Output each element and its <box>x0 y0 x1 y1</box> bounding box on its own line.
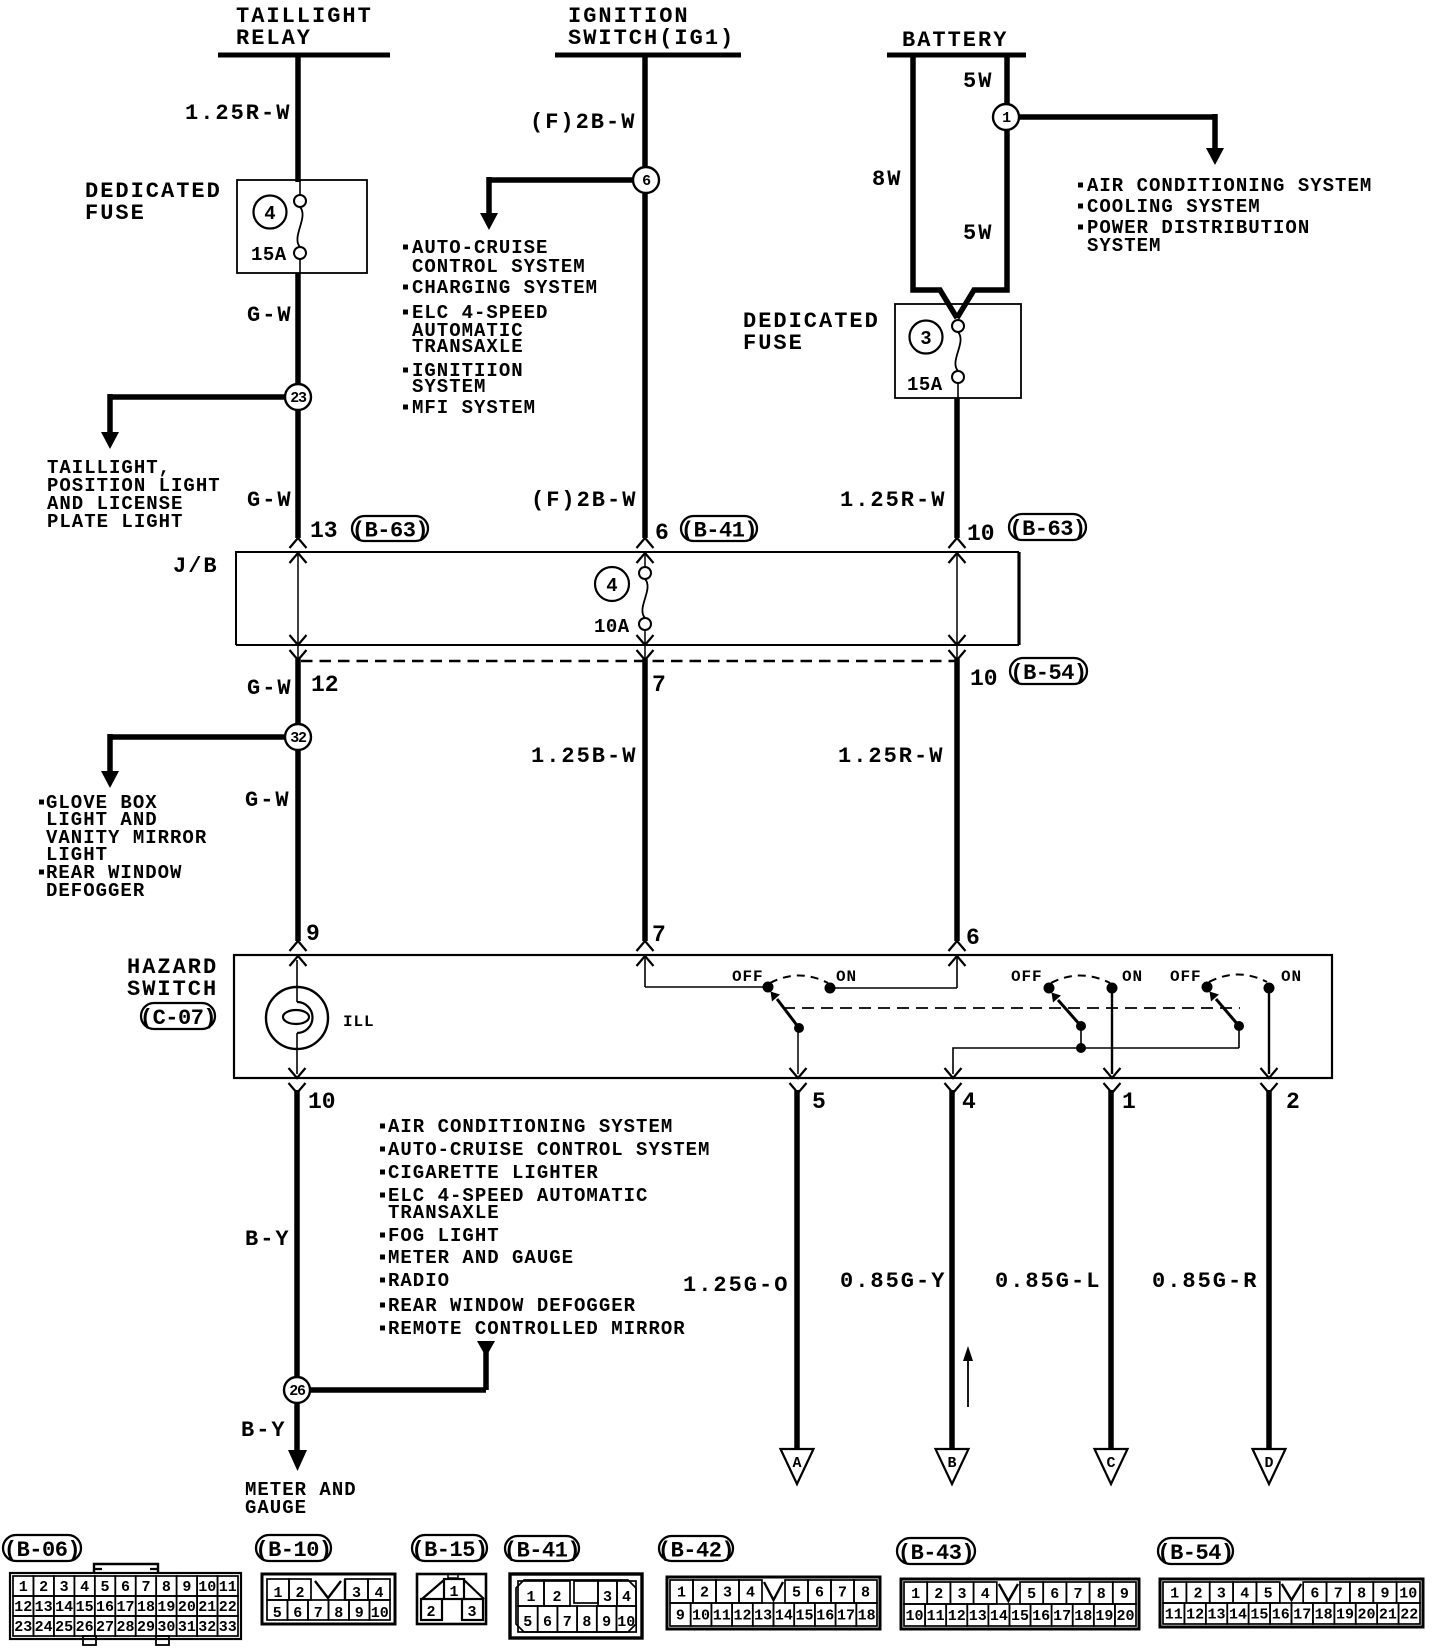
wire1 inside J/B <box>297 554 299 659</box>
branch wire at junction 23 to taillight group <box>101 394 298 449</box>
label 15A fuse 3 <box>907 374 943 396</box>
label G-W pin12 <box>247 676 293 701</box>
wire battery 5W branch <box>957 55 1007 318</box>
svg-text:10: 10 <box>371 1605 389 1622</box>
junction 23 <box>285 384 311 410</box>
hazard switch 2 ON wire to pin 1 <box>1111 988 1113 1074</box>
hazard switch 1 input line <box>645 957 768 987</box>
svg-text:1: 1 <box>1170 1586 1179 1603</box>
hazard switch 3 OFF label <box>1170 968 1202 986</box>
svg-text:8: 8 <box>1097 1586 1106 1603</box>
svg-text:J/B: J/B <box>173 554 219 579</box>
svg-text:4: 4 <box>606 575 617 597</box>
svg-text:8: 8 <box>334 1605 343 1622</box>
svg-text:15: 15 <box>1250 1607 1268 1624</box>
junction 26 <box>284 1377 310 1403</box>
hazard switch 2 contact arc <box>1051 976 1110 984</box>
svg-text:CIGARETTE LIGHTER: CIGARETTE LIGHTER <box>388 1162 599 1184</box>
svg-text:(B-06): (B-06) <box>4 1538 80 1563</box>
svg-text:DEFOGGER: DEFOGGER <box>46 880 145 902</box>
wire 1.25G-O pin5 to A <box>794 1090 800 1449</box>
svg-text:OFF: OFF <box>1170 968 1202 986</box>
label G-W upper <box>247 303 293 328</box>
svg-text:3: 3 <box>467 1604 476 1621</box>
label ILL <box>343 1013 375 1031</box>
connector arrows wire2 into J/B <box>637 538 654 563</box>
wire B-Y to meter and gauge <box>288 1403 307 1471</box>
component hazard switch label <box>127 955 218 1002</box>
node B destination triangle <box>936 1449 969 1484</box>
hazard switch 1 lever <box>771 992 804 1033</box>
connector B-41 pinout <box>504 1536 642 1638</box>
svg-text:G-W: G-W <box>247 488 293 513</box>
svg-text:(B-41): (B-41) <box>681 519 757 544</box>
svg-text:FOG LIGHT: FOG LIGHT <box>388 1225 500 1247</box>
svg-text:18: 18 <box>137 1599 155 1616</box>
pin 10 hazard bottom <box>308 1089 336 1115</box>
svg-text:1: 1 <box>19 1579 28 1596</box>
svg-text:ON: ON <box>1281 968 1302 986</box>
label 1.25G-O <box>683 1273 789 1298</box>
connector arrows pin5 hazard bottom <box>790 1068 807 1093</box>
hazard switch 3 lever to common <box>1238 1026 1240 1048</box>
label 5W upper <box>963 69 993 94</box>
mechanical link dashed line <box>783 1007 1240 1009</box>
wire G-W J/B to junction 32 <box>295 659 301 941</box>
svg-text:16: 16 <box>96 1599 114 1616</box>
label 0.85G-L <box>995 1269 1101 1294</box>
svg-text:23: 23 <box>14 1619 32 1636</box>
annotation meter and gauge <box>245 1479 357 1519</box>
svg-text:(B-54): (B-54) <box>1157 1541 1233 1566</box>
wire G-W fuse4 to junction 23 <box>295 273 301 538</box>
wire 0.85G-L pin1 to C <box>1108 1090 1114 1449</box>
pin 7 J/B bottom <box>652 672 666 698</box>
hazard switch 1 contact arc <box>770 976 828 984</box>
svg-text:(B-41): (B-41) <box>504 1539 580 1564</box>
wire3 inside J/B <box>956 554 958 659</box>
svg-text:10: 10 <box>970 666 998 692</box>
label 1.25R-W above J/B <box>840 488 946 513</box>
svg-text:9: 9 <box>182 1579 191 1596</box>
svg-text:OFF: OFF <box>1011 968 1043 986</box>
svg-text:4: 4 <box>962 1089 976 1115</box>
svg-text:33: 33 <box>219 1619 237 1636</box>
svg-text:18: 18 <box>1074 1608 1092 1625</box>
common wire to pin 4 <box>953 1048 1239 1074</box>
svg-text:1.25G-O: 1.25G-O <box>683 1273 789 1298</box>
svg-text:7: 7 <box>838 1585 847 1602</box>
svg-text:GAUGE: GAUGE <box>245 1497 307 1519</box>
svg-text:(C-07): (C-07) <box>140 1006 216 1031</box>
label (F)2B-W upper <box>530 110 636 135</box>
svg-text:19: 19 <box>1095 1608 1113 1625</box>
svg-text:5W: 5W <box>963 69 993 94</box>
svg-text:(B-54): (B-54) <box>1010 661 1086 686</box>
svg-text:1.25R-W: 1.25R-W <box>840 488 946 513</box>
svg-text:23: 23 <box>290 390 307 407</box>
svg-text:1.25R-W: 1.25R-W <box>838 744 944 769</box>
wire 1.25R-W fuse3 to J/B <box>954 398 960 538</box>
connector B-63 pin13 <box>352 516 428 544</box>
hazard switch 2 ON contact <box>1107 983 1117 993</box>
svg-text:AIR CONDITIONING SYSTEM: AIR CONDITIONING SYSTEM <box>1087 175 1372 197</box>
node A destination triangle <box>781 1449 814 1484</box>
svg-text:17: 17 <box>1053 1608 1071 1625</box>
wire 1.25B-W J/B to hazard <box>642 659 648 941</box>
hazard switch 3 ON label <box>1281 968 1302 986</box>
svg-text:8: 8 <box>162 1579 171 1596</box>
svg-text:1: 1 <box>1122 1089 1136 1115</box>
svg-text:4: 4 <box>1240 1586 1249 1603</box>
label 5W lower <box>963 221 993 246</box>
hazard switch 2 lever to common <box>1077 1026 1086 1053</box>
pin 2 hazard bottom <box>1286 1089 1300 1115</box>
svg-text:17: 17 <box>116 1599 134 1616</box>
svg-text:30: 30 <box>157 1619 175 1636</box>
branch wire at junction 6 to systems <box>480 177 651 230</box>
wire battery 8W branch <box>913 55 957 318</box>
svg-text:19: 19 <box>1336 1607 1354 1624</box>
svg-text:CONTROL SYSTEM: CONTROL SYSTEM <box>412 256 586 278</box>
hazard switch 1 output to pin 5 <box>797 1028 799 1074</box>
label G-W above J/B <box>247 488 293 513</box>
wire B-Y pin10 to junction 26 <box>294 1090 300 1377</box>
svg-text:6: 6 <box>121 1579 130 1596</box>
connector B-63 pin10 <box>1009 514 1086 542</box>
svg-text:18: 18 <box>1315 1607 1333 1624</box>
svg-text:6: 6 <box>293 1605 302 1622</box>
svg-text:5W: 5W <box>963 221 993 246</box>
svg-text:A: A <box>792 1455 801 1472</box>
connector arrows wire3 hazard top <box>949 941 966 966</box>
svg-text:2: 2 <box>700 1585 709 1602</box>
svg-text:6: 6 <box>543 1614 552 1631</box>
svg-text:4: 4 <box>981 1586 990 1603</box>
label 1.25R-W <box>185 101 291 126</box>
svg-text:2: 2 <box>1194 1586 1203 1603</box>
connector B-15 pinout <box>411 1535 487 1624</box>
svg-text:0.85G-L: 0.85G-L <box>995 1269 1101 1294</box>
svg-text:10: 10 <box>308 1089 336 1115</box>
pin 12 J/B bottom <box>311 672 339 698</box>
hazard switch 1 OFF contact <box>763 982 773 992</box>
connector arrows wire3 into J/B <box>949 538 966 563</box>
branch wire at junction 1 to systems <box>1012 114 1224 165</box>
svg-text:15: 15 <box>796 1608 814 1625</box>
connector C-07 <box>140 1003 216 1031</box>
annotation ignition branch systems <box>403 237 598 419</box>
connector arrows pin2 hazard bottom <box>1261 1068 1278 1093</box>
wire 0.85G-R pin2 to D <box>1266 1090 1272 1449</box>
hazard switch 2 ON label <box>1122 968 1143 986</box>
svg-text:1.25R-W: 1.25R-W <box>185 101 291 126</box>
label B-Y lower <box>241 1418 287 1443</box>
svg-text:12: 12 <box>948 1608 966 1625</box>
hazard switch 1 OFF label <box>732 968 764 986</box>
svg-text:(B-10): (B-10) <box>255 1538 331 1563</box>
hazard switch 2 OFF contact <box>1044 983 1054 993</box>
pin 6 hazard top <box>966 925 980 951</box>
svg-text:4: 4 <box>80 1579 89 1596</box>
svg-text:26: 26 <box>76 1619 94 1636</box>
svg-text:(F)2B-W: (F)2B-W <box>531 488 637 513</box>
component BATTERY <box>887 28 1026 55</box>
wire2 inside J/B upper <box>644 554 646 567</box>
label 0.85G-R <box>1152 1269 1258 1294</box>
connector B-42 pinout <box>658 1536 880 1629</box>
svg-text:8: 8 <box>582 1614 591 1631</box>
junction block J/B box <box>173 552 1019 645</box>
svg-text:4: 4 <box>622 1589 631 1606</box>
svg-text:11: 11 <box>927 1608 945 1625</box>
svg-text:0.85G-R: 0.85G-R <box>1152 1269 1258 1294</box>
J/B boundary dashed line <box>301 660 957 663</box>
svg-text:1: 1 <box>449 1584 458 1601</box>
svg-text:21: 21 <box>198 1599 216 1616</box>
svg-text:11: 11 <box>219 1579 237 1596</box>
annotation glove box systems <box>39 792 207 902</box>
svg-text:14: 14 <box>775 1608 793 1625</box>
svg-text:RELAY: RELAY <box>236 26 312 51</box>
svg-text:26: 26 <box>289 1383 306 1400</box>
hazard switch 3 ON wire to pin 2 <box>1268 988 1270 1074</box>
svg-text:6: 6 <box>655 520 669 546</box>
connector arrows wire1 J/B bottom <box>290 635 307 660</box>
svg-text:SWITCH: SWITCH <box>127 977 218 1002</box>
svg-text:12: 12 <box>311 672 339 698</box>
svg-text:32: 32 <box>290 730 307 747</box>
svg-text:(B-63): (B-63) <box>352 519 428 544</box>
svg-text:METER AND GAUGE: METER AND GAUGE <box>388 1247 574 1269</box>
svg-text:5: 5 <box>273 1605 282 1622</box>
svg-text:10: 10 <box>967 521 995 547</box>
svg-text:RADIO: RADIO <box>388 1270 450 1292</box>
svg-text:5: 5 <box>1027 1586 1036 1603</box>
svg-text:OFF: OFF <box>732 968 764 986</box>
svg-text:6: 6 <box>1310 1586 1319 1603</box>
svg-text:SWITCH(IG1): SWITCH(IG1) <box>568 26 735 51</box>
svg-text:5: 5 <box>523 1614 532 1631</box>
label (F)2B-W above J/B <box>531 488 637 513</box>
component TAILLIGHT RELAY <box>218 4 390 55</box>
connector arrows wire2 J/B bottom <box>637 635 654 660</box>
svg-text:27: 27 <box>96 1619 114 1636</box>
svg-text:31: 31 <box>178 1619 196 1636</box>
svg-text:5: 5 <box>812 1089 826 1115</box>
component IGNITION SWITCH(IG1) <box>555 4 741 55</box>
hazard switch 3 contact arc <box>1209 975 1267 983</box>
wire 0.85G-Y pin4 to B <box>949 1090 955 1449</box>
svg-text:13: 13 <box>754 1608 772 1625</box>
svg-text:7: 7 <box>314 1605 323 1622</box>
svg-text:10: 10 <box>1399 1586 1417 1603</box>
svg-text:2: 2 <box>934 1586 943 1603</box>
svg-text:1: 1 <box>1002 110 1011 127</box>
svg-text:6: 6 <box>966 925 980 951</box>
svg-text:7: 7 <box>652 922 666 948</box>
svg-text:B-Y: B-Y <box>245 1227 291 1252</box>
svg-text:REMOTE CONTROLLED MIRROR: REMOTE CONTROLLED MIRROR <box>388 1318 686 1340</box>
label 10A <box>594 616 630 638</box>
svg-text:22: 22 <box>219 1599 237 1616</box>
svg-text:25: 25 <box>55 1619 73 1636</box>
svg-text:COOLING SYSTEM: COOLING SYSTEM <box>1087 196 1261 218</box>
svg-text:11: 11 <box>1165 1607 1183 1624</box>
svg-text:11: 11 <box>713 1608 731 1625</box>
svg-text:3: 3 <box>920 328 931 350</box>
svg-text:C: C <box>1106 1455 1115 1472</box>
pin 9 hazard top <box>306 921 320 947</box>
svg-text:B-Y: B-Y <box>241 1418 287 1443</box>
svg-text:1: 1 <box>526 1589 535 1606</box>
pin 10 J/B top <box>967 521 995 547</box>
svg-text:10: 10 <box>692 1608 710 1625</box>
svg-text:14: 14 <box>1229 1607 1247 1624</box>
hazard switch 1 ON contact <box>825 983 835 993</box>
svg-text:5: 5 <box>792 1585 801 1602</box>
svg-text:14: 14 <box>990 1608 1008 1625</box>
fuse 4 10A inside J/B <box>595 567 651 659</box>
hazard switch box <box>234 955 1332 1078</box>
connector B-06 pinout <box>3 1535 241 1645</box>
svg-text:19: 19 <box>157 1599 175 1616</box>
pin 10 J/B bottom <box>970 666 998 692</box>
svg-text:D: D <box>1264 1455 1273 1472</box>
svg-text:G-W: G-W <box>247 303 293 328</box>
svg-text:CHARGING SYSTEM: CHARGING SYSTEM <box>412 277 598 299</box>
hazard switch 1 ON wire to pin 6 <box>830 957 957 988</box>
connector arrows pin4 hazard bottom <box>945 1068 962 1093</box>
svg-text:7: 7 <box>652 672 666 698</box>
connector arrows wire2 hazard top <box>637 941 654 966</box>
svg-text:18: 18 <box>858 1608 876 1625</box>
svg-text:10A: 10A <box>594 616 630 638</box>
svg-text:(B-43): (B-43) <box>898 1541 974 1566</box>
label B-Y upper <box>245 1227 291 1252</box>
svg-text:15A: 15A <box>907 374 943 396</box>
connector B-10 pinout <box>255 1535 395 1624</box>
svg-text:9: 9 <box>676 1608 685 1625</box>
svg-text:7: 7 <box>563 1614 572 1631</box>
svg-text:2: 2 <box>552 1589 561 1606</box>
svg-text:8W: 8W <box>872 167 902 192</box>
connector B-54 pin10 <box>1010 658 1087 686</box>
branch wire at junction 32 to glove box <box>101 734 298 788</box>
svg-text:10: 10 <box>617 1614 635 1631</box>
pin 7 hazard top <box>652 922 666 948</box>
svg-text:ILL: ILL <box>343 1013 375 1031</box>
svg-text:MFI SYSTEM: MFI SYSTEM <box>412 397 536 419</box>
illumination lamp ILL <box>266 960 328 1074</box>
label 8W <box>872 167 902 192</box>
svg-text:13: 13 <box>35 1599 53 1616</box>
connector B-43 pinout <box>897 1538 1139 1629</box>
svg-text:12: 12 <box>733 1608 751 1625</box>
svg-text:5: 5 <box>101 1579 110 1596</box>
label 1.25R-W mid <box>838 744 944 769</box>
svg-text:13: 13 <box>1208 1607 1226 1624</box>
svg-text:G-W: G-W <box>245 788 291 813</box>
svg-text:9: 9 <box>1120 1586 1129 1603</box>
svg-text:(F)2B-W: (F)2B-W <box>530 110 636 135</box>
label G-W below junction 32 <box>245 788 291 813</box>
svg-text:20: 20 <box>1357 1607 1375 1624</box>
dedicated fuse label right <box>743 309 880 356</box>
junction 6 <box>633 167 659 193</box>
junction 1 <box>993 104 1019 130</box>
svg-text:AUTO-CRUISE CONTROL SYSTEM: AUTO-CRUISE CONTROL SYSTEM <box>388 1139 710 1161</box>
hazard switch 3 OFF contact <box>1202 982 1212 992</box>
svg-text:13: 13 <box>969 1608 987 1625</box>
svg-text:4: 4 <box>264 203 275 225</box>
wire 1.25R-W taillight relay to fuse 4 <box>295 55 301 182</box>
svg-text:3: 3 <box>723 1585 732 1602</box>
svg-text:20: 20 <box>178 1599 196 1616</box>
branch wire at junction 26 from systems <box>303 1341 495 1390</box>
svg-text:6: 6 <box>815 1585 824 1602</box>
svg-text:17: 17 <box>837 1608 855 1625</box>
svg-text:3: 3 <box>957 1586 966 1603</box>
svg-text:7: 7 <box>141 1579 150 1596</box>
svg-text:6: 6 <box>642 173 651 190</box>
hazard switch 2 lever <box>1052 993 1086 1031</box>
svg-text:3: 3 <box>1217 1586 1226 1603</box>
svg-text:2: 2 <box>39 1579 48 1596</box>
svg-text:1.25B-W: 1.25B-W <box>531 744 637 769</box>
pin 1 hazard bottom <box>1122 1089 1136 1115</box>
connector arrows wire1 hazard top <box>290 941 307 966</box>
hazard switch 1 ON label <box>836 968 857 986</box>
svg-text:TRANSAXLE: TRANSAXLE <box>412 336 524 358</box>
svg-text:7: 7 <box>1334 1586 1343 1603</box>
svg-text:16: 16 <box>816 1608 834 1625</box>
pin 4 hazard bottom <box>962 1089 976 1115</box>
svg-text:22: 22 <box>1400 1607 1418 1624</box>
svg-text:5: 5 <box>1264 1586 1273 1603</box>
svg-text:G-W: G-W <box>247 676 293 701</box>
svg-text:FUSE: FUSE <box>743 331 804 356</box>
svg-text:3: 3 <box>60 1579 69 1596</box>
connector B-54 pinout <box>1157 1538 1423 1627</box>
svg-text:17: 17 <box>1293 1607 1311 1624</box>
svg-text:8: 8 <box>1357 1586 1366 1603</box>
dedicated fuse 3 box <box>895 304 1021 398</box>
wire (F)2B-W ignition switch <box>642 55 648 538</box>
svg-text:9: 9 <box>355 1605 364 1622</box>
svg-text:4: 4 <box>746 1585 755 1602</box>
svg-text:9: 9 <box>602 1614 611 1631</box>
svg-text:0.85G-Y: 0.85G-Y <box>840 1269 946 1294</box>
dedicated fuse label left <box>85 179 222 226</box>
wire 1.25R-W J/B to hazard <box>954 659 960 941</box>
hazard switch 3 lever <box>1210 992 1244 1031</box>
connector B-41 pin6 <box>681 516 757 544</box>
dedicated fuse 4 box <box>237 180 367 273</box>
svg-text:24: 24 <box>35 1619 53 1636</box>
svg-text:12: 12 <box>14 1599 32 1616</box>
svg-text:12: 12 <box>1186 1607 1204 1624</box>
svg-text:3: 3 <box>603 1589 612 1606</box>
label 15A fuse 4 <box>251 244 287 266</box>
hazard switch 2 OFF label <box>1011 968 1043 986</box>
annotation taillight position license <box>47 457 221 533</box>
svg-text:TRANSAXLE: TRANSAXLE <box>388 1202 500 1224</box>
connector arrows wire3 J/B bottom <box>949 635 966 660</box>
svg-text:9: 9 <box>306 921 320 947</box>
svg-text:ON: ON <box>1122 968 1143 986</box>
svg-text:15A: 15A <box>251 244 287 266</box>
